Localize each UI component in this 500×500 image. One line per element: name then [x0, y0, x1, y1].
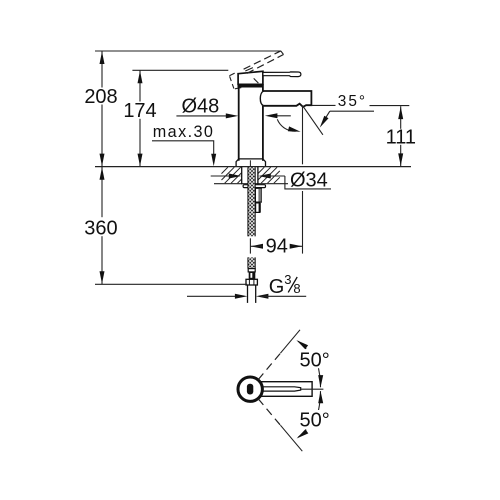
- centerline extension for 94: [249, 238, 251, 253]
- dimension arrows at shank Ø34: [211, 175, 237, 177]
- washer / mounting nut under counter: [243, 185, 265, 188]
- extension line, top of cap (174): [132, 69, 228, 71]
- 50 deg angle arc lower, piece near centerline: [319, 391, 321, 410]
- top view: cartridge pin (dark pill): [247, 384, 253, 395]
- 50 deg angle arc lower, piece near extension line with arrow: [298, 430, 306, 438]
- svg-text:174: 174: [123, 100, 156, 122]
- top view: lever blade: [262, 387, 301, 391]
- mounting hole / shank edges in countertop: [241, 167, 243, 185]
- spout root curve on body: [260, 91, 263, 106]
- svg-text:8: 8: [293, 281, 300, 296]
- dimension 94 line + arrows: [251, 244, 264, 249]
- svg-text:94: 94: [266, 236, 288, 258]
- svg-text:360: 360: [84, 218, 117, 240]
- svg-text:111: 111: [386, 126, 416, 148]
- dimension 174 line + arrows: [139, 70, 141, 101]
- svg-text:max.30: max.30: [153, 123, 214, 141]
- braided hose texture lower part: [248, 257, 255, 268]
- faucet body right edge: [262, 84, 264, 91]
- G3/8 threaded tube: [247, 285, 249, 303]
- centerline of faucet: [249, 160, 251, 167]
- faucet cap (cartridge cover), side view: [238, 71, 263, 84]
- base ring / flange: [239, 158, 263, 160]
- braided hose texture pattern upper part: [248, 167, 255, 236]
- extension line lower 50 deg: [280, 425, 302, 451]
- extension line, hose end (360): [95, 283, 247, 285]
- faucet body left edge: [238, 84, 240, 161]
- dimension 208 line + arrows: [101, 51, 103, 88]
- curved arrow to stream line: [277, 119, 295, 131]
- threaded mounting stud upper step: [255, 188, 261, 202]
- top view: dashed lever at lower 50 deg: [258, 399, 280, 425]
- svg-text:G: G: [269, 276, 285, 298]
- svg-text:3: 3: [284, 272, 291, 287]
- svg-text:50°: 50°: [300, 409, 330, 431]
- label Ø34 with leader: [285, 176, 331, 189]
- thick joint ring under cap: [238, 84, 264, 87]
- svg-text:50°: 50°: [300, 350, 330, 372]
- label 50 deg upper: [298, 350, 332, 368]
- hose crimp ferrule: [248, 269, 255, 272]
- label 35 deg with leader lines: [311, 104, 335, 106]
- countertop hatching left of shank: [222, 167, 228, 173]
- svg-text:35°: 35°: [338, 93, 367, 110]
- spout outline: [263, 91, 312, 107]
- dashed lever in raised position: [244, 51, 281, 69]
- 50 deg angle arc upper, piece near centerline: [319, 368, 321, 387]
- countertop section, top line: [95, 166, 411, 168]
- svg-text:208: 208: [84, 86, 117, 108]
- stream vertical extension line from aerator: [302, 106, 304, 164]
- dimension 111 line + arrows: [400, 106, 402, 129]
- top view: centerline: [301, 388, 324, 390]
- solid lever handle, side view: [263, 72, 301, 77]
- extension line upper 50 deg: [280, 330, 300, 353]
- small horizontal arrow at spout root: [270, 115, 291, 117]
- countertop section, bottom line: [214, 183, 288, 185]
- svg-text:Ø48: Ø48: [182, 96, 220, 118]
- extension line, top of raised lever (208): [95, 50, 281, 52]
- dimension 360 line + arrows: [101, 167, 103, 218]
- hose end fitting (dark): [249, 272, 256, 279]
- label 50 deg lower: [298, 410, 332, 428]
- top view: handle envelope rectangle: [262, 382, 313, 397]
- svg-text:Ø34: Ø34: [290, 170, 328, 192]
- threaded mounting stud lower step: [256, 203, 260, 213]
- top view: faucet body circle: [238, 377, 262, 401]
- dimension arrows at G3/8 thread: [187, 295, 242, 297]
- hose connector nut: [246, 279, 257, 285]
- stream diagonal 35 deg line: [303, 106, 323, 135]
- dashed cap outline in tilted position: [229, 73, 234, 76]
- countertop hatching right of shank: [258, 167, 264, 173]
- 50 deg angle arc upper, piece near extension line with arrow: [298, 341, 306, 349]
- top view: dashed lever at upper 50 deg: [258, 353, 280, 379]
